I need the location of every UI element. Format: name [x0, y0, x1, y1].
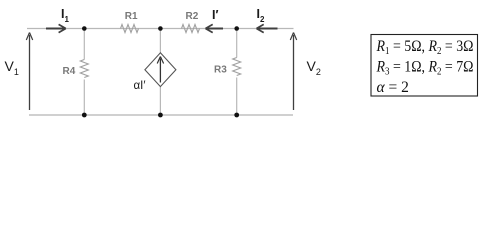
- resistor R2: [182, 25, 200, 33]
- svg-text:R3 = 1Ω, R2 = 7Ω: R3 = 1Ω, R2 = 7Ω: [376, 59, 474, 78]
- svg-text:I1: I1: [61, 7, 69, 24]
- current arrow I': [207, 28, 223, 30]
- wire source branch: [159, 29, 161, 116]
- top wire: [27, 28, 294, 30]
- node E bottom junction 2: [158, 113, 163, 118]
- bottom wire: [29, 114, 293, 116]
- resistor R1: [121, 25, 139, 33]
- svg-text:R1 = 5Ω, R2 = 3Ω: R1 = 5Ω, R2 = 3Ω: [376, 38, 474, 57]
- values box: [371, 35, 478, 97]
- svg-text:R1: R1: [125, 11, 138, 22]
- voltage arrow V2: [293, 35, 295, 110]
- resistor R3: [233, 58, 241, 76]
- svg-text:R2: R2: [186, 11, 199, 22]
- svg-text:I2: I2: [257, 7, 265, 24]
- resistor R4: [80, 60, 88, 78]
- dependent current source U1 diamond: [145, 53, 176, 87]
- svg-text:V2: V2: [307, 58, 321, 77]
- node D bottom junction 1: [82, 113, 87, 118]
- current arrow I2: [258, 28, 278, 30]
- svg-text:αI′: αI′: [134, 80, 146, 92]
- svg-text:V1: V1: [5, 58, 19, 77]
- svg-text:R3: R3: [214, 65, 227, 76]
- node A top-left junction: [82, 26, 87, 31]
- node C top-right junction: [234, 26, 239, 31]
- wire R3 branch: [236, 29, 238, 116]
- svg-text:α = 2: α = 2: [377, 79, 409, 96]
- svg-text:I′: I′: [212, 8, 218, 22]
- current arrow I1: [46, 28, 65, 30]
- wire R4 branch: [83, 29, 85, 116]
- svg-text:R4: R4: [63, 66, 76, 77]
- node B top-middle junction: [158, 26, 163, 31]
- dependent source arrow: [159, 59, 161, 83]
- node F bottom junction 3: [234, 113, 239, 118]
- voltage arrow V1: [29, 35, 31, 110]
